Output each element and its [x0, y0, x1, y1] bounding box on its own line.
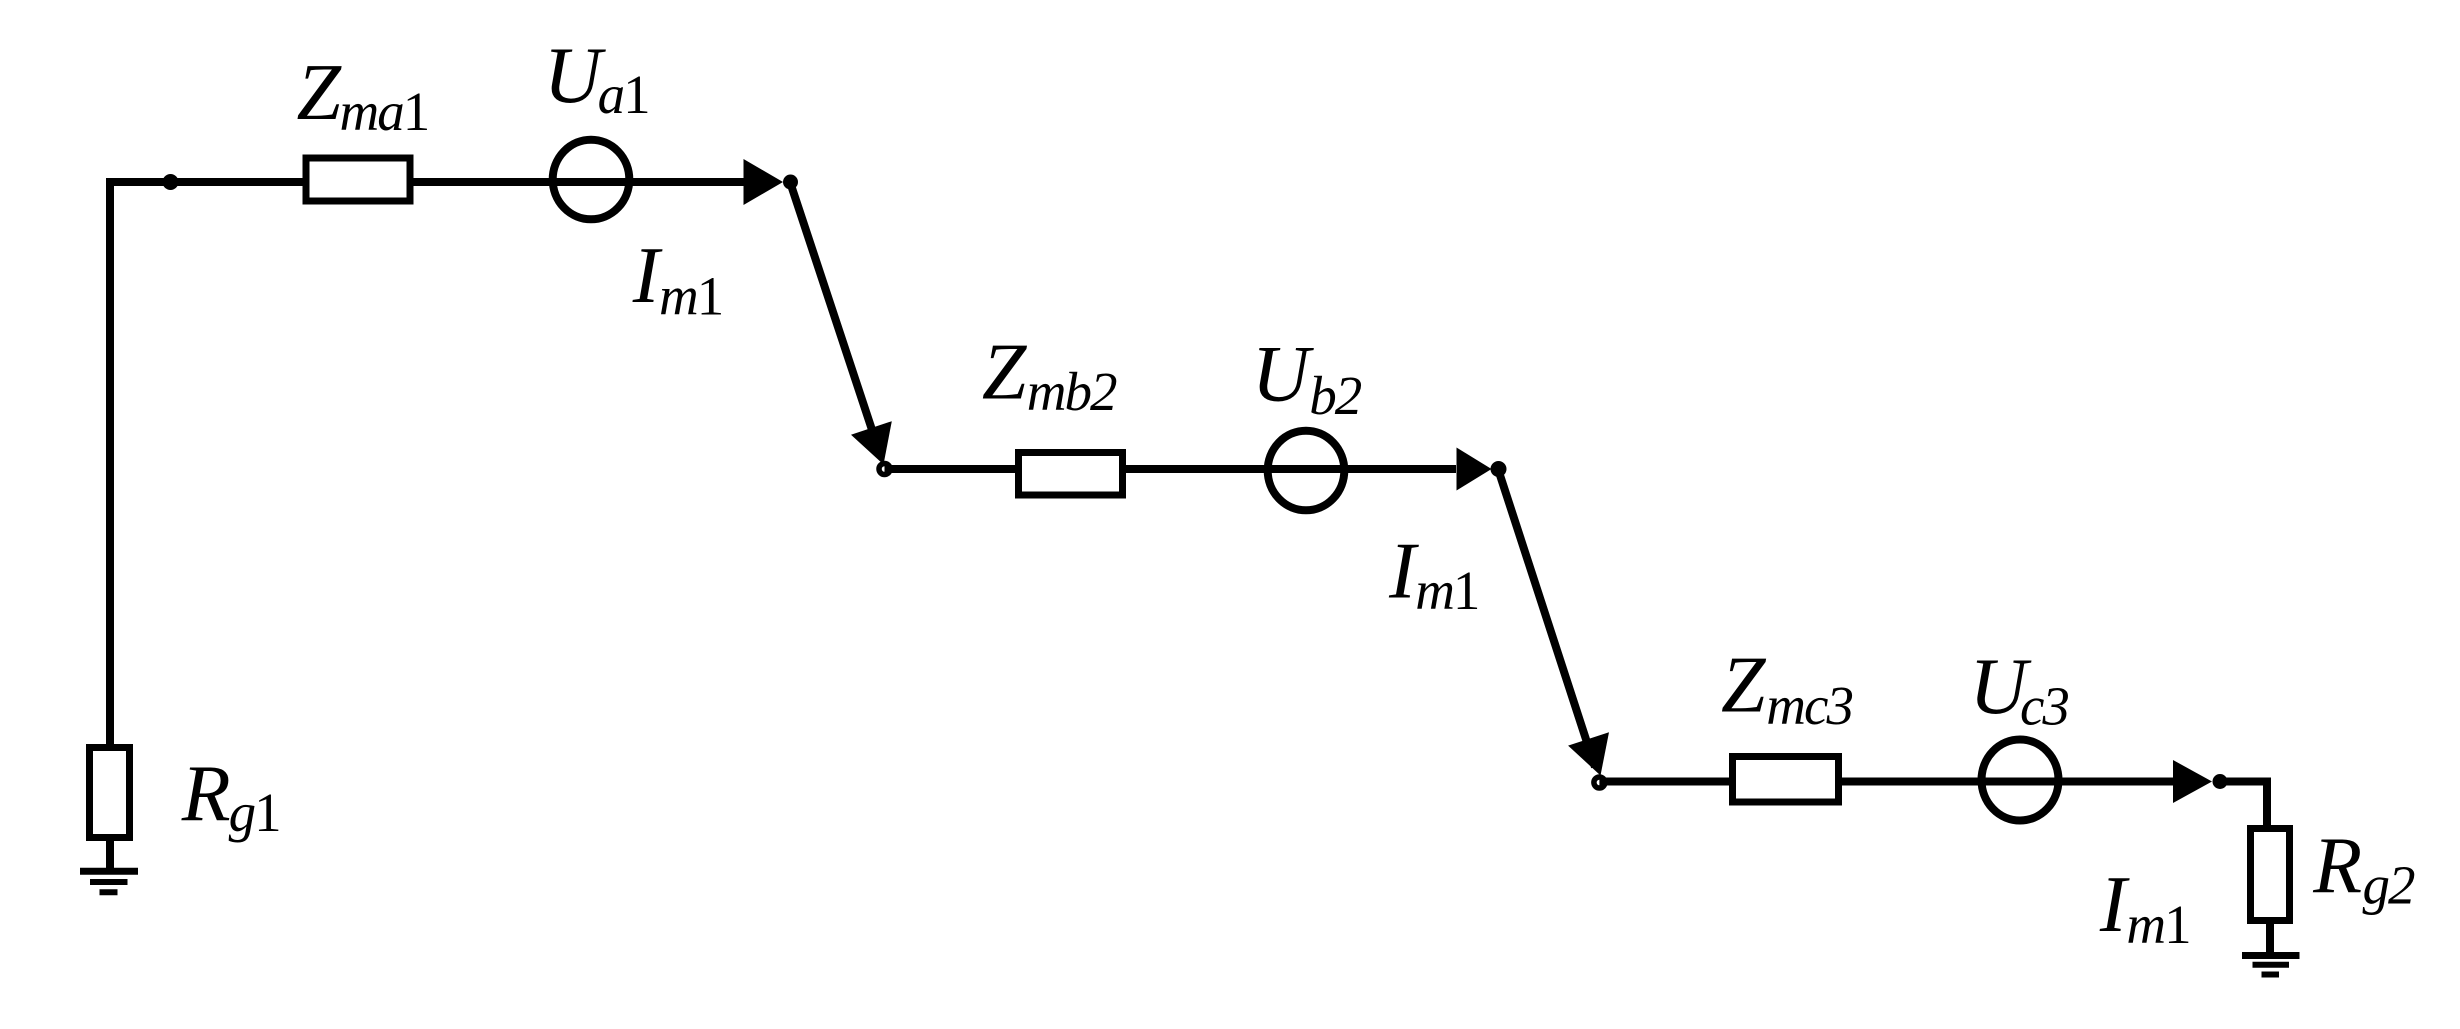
node dot row 2 end [1491, 461, 1507, 477]
wire left vertical + row 1 horizontal [110, 182, 746, 744]
resistor Zma1 [306, 158, 410, 201]
svg-text:R: R [181, 750, 231, 838]
source Uc3 [1982, 740, 2059, 821]
resistor Zmb2 [1019, 453, 1123, 496]
arrow on diagonal 2 [1568, 732, 1609, 775]
wire stub Rg2 to ground [2266, 921, 2274, 953]
svg-text:g1: g1 [229, 782, 280, 843]
wire diagonal 1 [790, 182, 881, 457]
node open dot (junction row 2 left) [879, 464, 890, 475]
svg-text:ma1: ma1 [340, 81, 429, 142]
wire diagonal 2 [1498, 469, 1595, 767]
svg-text:g2: g2 [2363, 855, 2416, 916]
node junction dot left [163, 174, 179, 190]
wire row 3 to corner and down to Rg2 [2220, 782, 2267, 829]
wire stub Rg1 to ground [106, 838, 114, 869]
ground (right) [2242, 952, 2300, 959]
svg-text:m1: m1 [1415, 560, 1478, 621]
svg-text:Z: Z [982, 329, 1028, 417]
source Ua1 [553, 140, 630, 220]
svg-text:m1: m1 [2126, 894, 2189, 955]
node dot row 1 end [783, 175, 798, 190]
wire row 2 horizontal [885, 465, 1457, 473]
svg-text:U: U [1252, 331, 1315, 419]
resistor Zmc3 [1733, 757, 1839, 803]
svg-text:m1: m1 [659, 266, 722, 327]
wire arrow row 3 (Im1 direction) [2173, 760, 2212, 803]
resistor Rg1 (vertical) [90, 748, 130, 838]
svg-text:c3: c3 [2020, 676, 2068, 737]
ground (left) [80, 868, 138, 875]
wire row 3 horizontal [1599, 778, 2176, 786]
node dot row 3 end [2213, 774, 2228, 789]
svg-text:mc3: mc3 [1766, 675, 1852, 736]
svg-text:Z: Z [297, 49, 343, 137]
arrow on diagonal 1 [851, 421, 892, 464]
resistor Rg2 (vertical) [2251, 829, 2290, 921]
node open dot (junction row 3 left) [1594, 777, 1605, 788]
wire arrow row 1 (Im1 direction) [744, 159, 784, 205]
svg-text:R: R [2312, 822, 2362, 910]
source Ub2 [1268, 431, 1345, 511]
svg-text:a1: a1 [598, 64, 649, 125]
svg-text:b2: b2 [1309, 365, 1362, 426]
svg-text:mb2: mb2 [1027, 361, 1117, 422]
svg-text:Z: Z [1721, 642, 1767, 730]
svg-text:I: I [2099, 861, 2130, 949]
wire arrow row 2 (Im1 direction) [1457, 448, 1492, 491]
